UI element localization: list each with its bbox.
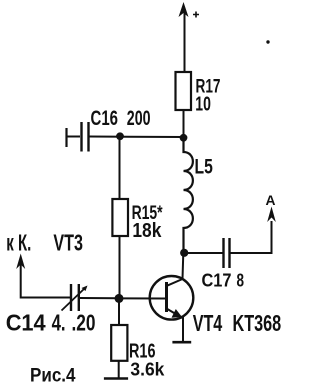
svg-text:C16: C16 <box>91 107 119 130</box>
wire C16 to top node <box>90 136 184 139</box>
svg-text:18k: 18k <box>132 220 162 242</box>
node junction collector <box>180 249 188 257</box>
wire emitter to ground <box>182 317 184 342</box>
node junction top rail <box>180 134 188 142</box>
label + <box>193 12 199 18</box>
svg-text:L5: L5 <box>195 156 214 179</box>
svg-text:3.6k: 3.6k <box>130 359 165 379</box>
resistor R15 <box>112 199 128 236</box>
ground R16 <box>104 377 128 380</box>
svg-text:к К.: к К. <box>6 230 31 256</box>
svg-text:C14: C14 <box>6 309 46 335</box>
inductor L5 <box>184 141 193 250</box>
wire node to C17 <box>188 252 223 254</box>
wire base node to R16 <box>118 302 120 325</box>
svg-text:VT4: VT4 <box>193 310 223 336</box>
svg-text:C17: C17 <box>202 271 232 291</box>
wire input to C14 <box>21 258 70 298</box>
wire base <box>119 297 165 299</box>
transistor VT4 <box>150 253 194 320</box>
svg-text:VT3: VT3 <box>53 230 83 256</box>
node junction C16 / R15 <box>116 132 124 140</box>
svg-text:.20: .20 <box>72 309 96 335</box>
svg-text:4.: 4. <box>52 309 66 335</box>
svg-text:10: 10 <box>195 93 211 115</box>
label 4..20 <box>52 309 96 335</box>
resistor R16 <box>111 325 127 361</box>
svg-text:KT368: KT368 <box>233 310 282 336</box>
label k K. VT3 <box>6 230 83 256</box>
wire R15 to base node <box>119 236 121 295</box>
wire C14 to base node <box>80 297 119 299</box>
ink speck <box>266 40 269 43</box>
node A arrow <box>267 207 276 223</box>
node junction base <box>115 294 124 303</box>
wire node to R15 <box>119 140 121 199</box>
variable capacitor C14 <box>62 284 88 311</box>
capacitor C17 <box>224 238 230 268</box>
svg-text:A: A <box>266 192 276 208</box>
wire C17 to node A <box>231 221 272 253</box>
svg-text:8: 8 <box>237 271 245 291</box>
svg-text:200: 200 <box>127 107 151 130</box>
power arrow (+ supply) <box>179 2 189 72</box>
wire R16 to ground <box>118 361 120 378</box>
input arrow to K of VT3 <box>16 254 25 270</box>
svg-text:Рис.4: Рис.4 <box>30 365 76 387</box>
ground emitter <box>172 341 191 344</box>
resistor R17 <box>176 72 192 110</box>
capacitor C16 <box>67 122 89 152</box>
wire R17 to top node <box>183 110 185 137</box>
